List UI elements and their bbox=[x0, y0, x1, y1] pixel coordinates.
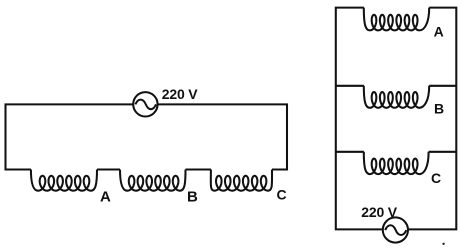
svg-text:A: A bbox=[434, 23, 444, 39]
svg-text:C: C bbox=[277, 187, 287, 203]
wire right circuit: top-left stub, left side, bottom-left segment bbox=[336, 8, 383, 230]
svg-text:B: B bbox=[434, 101, 444, 117]
inductor A (left circuit) bbox=[31, 170, 97, 191]
wire right circuit: top-right stub, right side, bottom-right segment bbox=[409, 8, 457, 230]
wire lower rung left stub bbox=[336, 151, 364, 153]
wire left circuit: top-left segment, left side, bottom-left segment bbox=[6, 104, 134, 169]
wire middle rung left stub bbox=[336, 85, 364, 87]
wire left circuit: top-right segment, right side, bottom-right segment bbox=[158, 104, 288, 169]
svg-text:A: A bbox=[100, 189, 111, 206]
wire bottom stub between inductors B and C bbox=[186, 168, 212, 170]
inductor C (left circuit) bbox=[211, 170, 272, 191]
ac source V1 (left circuit) bbox=[133, 92, 157, 116]
inductor C (right circuit, lower rung) bbox=[364, 152, 429, 174]
wire bottom stub between inductors A and B bbox=[97, 168, 120, 170]
wire lower rung right stub bbox=[429, 151, 457, 153]
svg-text:C: C bbox=[431, 170, 441, 186]
inductor A (right circuit, top rung) bbox=[364, 8, 429, 31]
svg-text:B: B bbox=[187, 189, 198, 206]
ac source V2 (right circuit) bbox=[383, 217, 408, 242]
inductor B (right circuit, middle rung) bbox=[364, 86, 429, 108]
wire middle rung right stub bbox=[429, 85, 456, 87]
svg-text:220 V: 220 V bbox=[162, 86, 198, 102]
svg-text:220 V: 220 V bbox=[361, 204, 397, 220]
scan speck bbox=[442, 243, 444, 245]
inductor B (left circuit) bbox=[120, 170, 186, 191]
